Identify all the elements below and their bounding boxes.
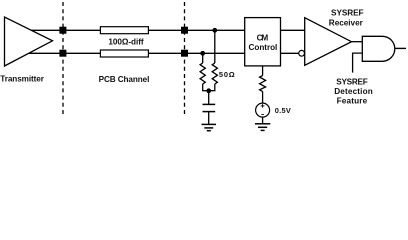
svg-text:PCB Channel: PCB Channel bbox=[99, 75, 150, 84]
svg-text:0.5V: 0.5V bbox=[275, 106, 291, 115]
svg-text:Feature: Feature bbox=[337, 97, 368, 106]
svg-text:Receiver: Receiver bbox=[329, 19, 364, 28]
svg-text:100Ω-diff: 100Ω-diff bbox=[108, 38, 143, 47]
svg-text:SYSREF: SYSREF bbox=[336, 78, 368, 87]
svg-text:Control: Control bbox=[249, 43, 278, 52]
svg-text:CM: CM bbox=[257, 34, 269, 43]
svg-text:Detection: Detection bbox=[334, 87, 373, 96]
svg-text:50Ω: 50Ω bbox=[219, 70, 235, 79]
svg-text:Transmitter: Transmitter bbox=[0, 75, 44, 84]
svg-text:SYSREF: SYSREF bbox=[331, 9, 364, 18]
